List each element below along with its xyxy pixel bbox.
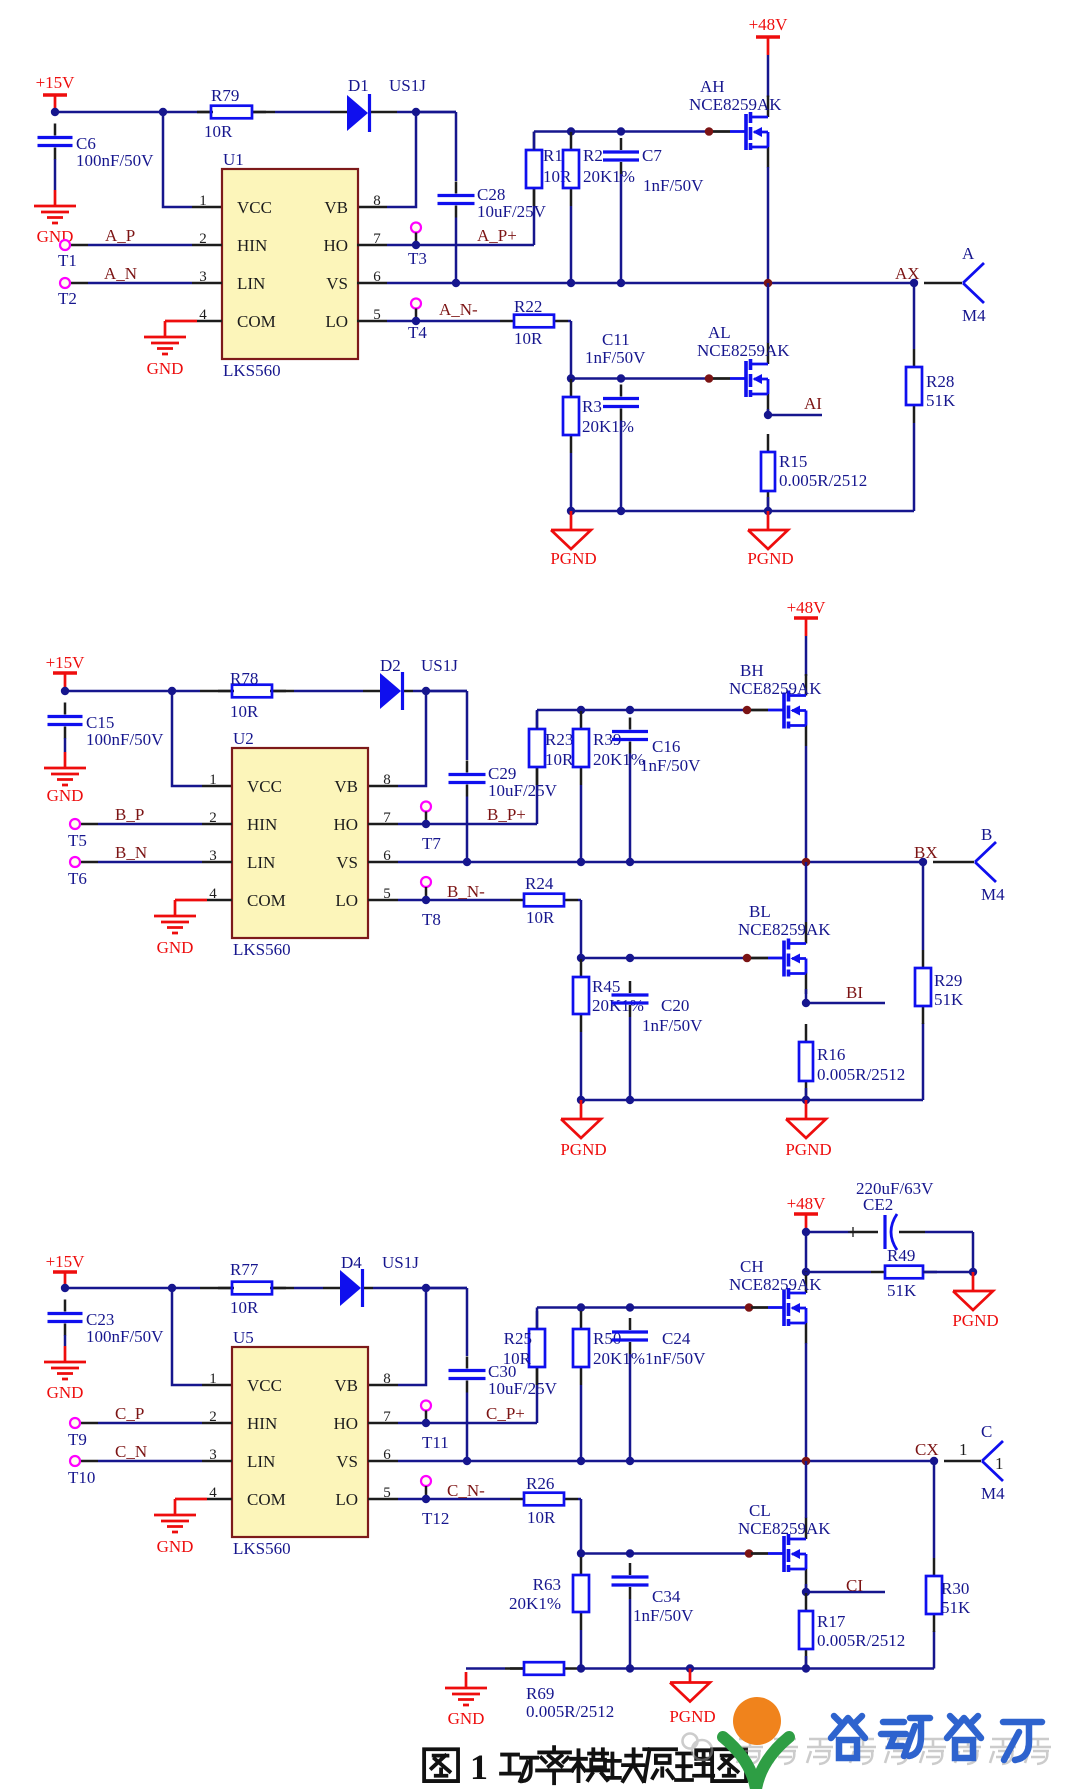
- wire VCC to U5 pin 1: [172, 1288, 232, 1385]
- svg-text:100nF/50V: 100nF/50V: [86, 730, 164, 749]
- test point T3: [408, 223, 427, 269]
- svg-text:R77: R77: [230, 1260, 259, 1279]
- resistor R22 10R: [500, 297, 568, 348]
- test point T5: [68, 819, 87, 850]
- wire C20 to PGND rail: [629, 1017, 632, 1100]
- resistor R1 10R (gate): [526, 132, 572, 206]
- transistor BH NCE8259AK: [729, 661, 822, 746]
- svg-text:T10: T10: [68, 1468, 95, 1487]
- wire BH source to BX rail: [805, 746, 808, 862]
- svg-text:10uF/25V: 10uF/25V: [477, 202, 547, 221]
- svg-text:R25: R25: [504, 1329, 532, 1348]
- wire C28 to VS rail: [455, 218, 458, 284]
- svg-text:B_P: B_P: [115, 805, 144, 824]
- wire C11 to PGND rail: [620, 421, 623, 512]
- svg-text:D1: D1: [348, 76, 369, 95]
- wire test point T11 stub: [425, 1411, 428, 1420]
- junction C16 on gate rail B-high: [626, 706, 634, 714]
- svg-text:20K1%: 20K1%: [582, 417, 634, 436]
- wire +15V rail (net VCC15, phase B): [65, 690, 467, 693]
- wire U1 HO pin 7 to gate node A_P+: [357, 188, 534, 245]
- junction R45 on gate rail B-low: [577, 954, 585, 962]
- junction VCC branch: [159, 108, 167, 116]
- capacitor C6 100nF/50V: [38, 124, 155, 171]
- wire R15 to PGND rail: [767, 497, 770, 511]
- svg-text:NCE8259AK: NCE8259AK: [697, 341, 790, 360]
- wire R63 to GND rail: [580, 1630, 583, 1669]
- capacitor C15 100nF/50V: [48, 703, 165, 750]
- svg-text:20K1%: 20K1%: [592, 996, 644, 1015]
- wire U2 LO pin 5 to R24: [368, 899, 510, 902]
- svg-text:+15V: +15V: [46, 1252, 86, 1271]
- wire B low-side gate rail: [581, 957, 747, 960]
- wire test point T7 stub: [425, 812, 428, 821]
- svg-text:LKS560: LKS560: [233, 1539, 291, 1558]
- connector M4 phase A: [962, 244, 986, 325]
- svg-text:U1: U1: [223, 150, 244, 169]
- resistor R2 20K1%: [563, 132, 635, 206]
- junction R50 on gate rail C-high: [577, 1303, 585, 1311]
- svg-text:8: 8: [383, 772, 391, 788]
- wire R17 to GND rail: [805, 1656, 808, 1669]
- wire CL drain to CX rail: [805, 1461, 808, 1518]
- svg-text:HIN: HIN: [247, 1414, 277, 1433]
- junction R45/PGND: [577, 1096, 585, 1104]
- power ground PGND (A shunt): [747, 511, 793, 568]
- svg-text:HIN: HIN: [237, 236, 267, 255]
- svg-text:LO: LO: [335, 1490, 358, 1509]
- junction R49/CE2/PGND: [969, 1268, 977, 1276]
- resistor R77: [218, 1260, 286, 1317]
- svg-text:VCC: VCC: [247, 1376, 282, 1395]
- wire VS output rail (net AX): [357, 282, 962, 285]
- wire C low-side gate rail: [581, 1552, 749, 1555]
- svg-text:CI: CI: [846, 1576, 863, 1595]
- wire net CI: [806, 1591, 885, 1594]
- svg-text:R26: R26: [526, 1474, 554, 1493]
- svg-text:CX: CX: [915, 1440, 939, 1459]
- svg-text:+15V: +15V: [36, 73, 76, 92]
- wire C high-side gate rail: [537, 1308, 749, 1330]
- junction BH gate (off-grid): [743, 706, 752, 715]
- svg-text:GND: GND: [157, 938, 194, 957]
- svg-text:M4: M4: [962, 306, 986, 325]
- svg-text:20K1%: 20K1%: [593, 1349, 645, 1368]
- junction CI node: [802, 1588, 810, 1596]
- svg-text:10R: 10R: [204, 122, 233, 141]
- svg-text:R24: R24: [525, 874, 554, 893]
- svg-text:PGND: PGND: [550, 549, 596, 568]
- svg-text:T12: T12: [422, 1509, 449, 1528]
- wire U5 HO pin 7 to gate node C_P+: [368, 1367, 537, 1423]
- wire R26 to CL gate rail: [578, 1499, 581, 1554]
- wire VB to C28: [416, 112, 456, 181]
- test point T8: [421, 877, 441, 929]
- svg-text:PGND: PGND: [952, 1311, 998, 1330]
- svg-text:10uF/25V: 10uF/25V: [488, 1379, 558, 1398]
- svg-text:GND: GND: [448, 1709, 485, 1728]
- caption: figure title 图 1 功率模块原理图: [424, 1747, 746, 1787]
- svg-text:C: C: [981, 1422, 992, 1441]
- power +15V (phase B): [46, 653, 86, 691]
- wire U5 COM pin 4 to ground: [175, 1498, 232, 1501]
- svg-text:T4: T4: [408, 323, 427, 342]
- wire AH source to VS rail: [767, 167, 770, 283]
- junction C11/PGND: [617, 507, 625, 515]
- wire +15V rail (net VCC15, phase C): [65, 1287, 467, 1290]
- ground GND (under C23): [44, 1346, 86, 1402]
- svg-text:+48V: +48V: [787, 1194, 827, 1213]
- power +15V (phase C): [46, 1252, 86, 1290]
- svg-text:A_N-: A_N-: [439, 300, 478, 319]
- svg-text:8: 8: [373, 193, 381, 209]
- capacitor C16 1nF/50V: [612, 718, 701, 776]
- wire R50 to VS rail: [580, 1385, 583, 1461]
- svg-text:PGND: PGND: [669, 1707, 715, 1726]
- svg-text:100nF/50V: 100nF/50V: [76, 151, 154, 170]
- svg-text:10R: 10R: [503, 1349, 532, 1368]
- resistor R26 10R: [510, 1474, 578, 1527]
- svg-text:C34: C34: [652, 1587, 681, 1606]
- svg-text:1: 1: [959, 1440, 968, 1459]
- svg-text:LO: LO: [325, 312, 348, 331]
- junction R49 left: [802, 1268, 810, 1276]
- svg-text:0.005R/2512: 0.005R/2512: [817, 1065, 905, 1084]
- wire C15 to GND: [64, 738, 67, 752]
- svg-text:10R: 10R: [514, 329, 543, 348]
- svg-text:COM: COM: [247, 891, 286, 910]
- svg-text:T5: T5: [68, 831, 87, 850]
- svg-text:LKS560: LKS560: [233, 940, 291, 959]
- resistor R79: [197, 86, 266, 141]
- resistor R15 0.005R shunt: [761, 434, 867, 509]
- svg-text:R69: R69: [526, 1684, 554, 1703]
- svg-text:10R: 10R: [230, 1298, 259, 1317]
- svg-text:BI: BI: [846, 983, 863, 1002]
- transistor BL NCE8259AK: [738, 902, 831, 994]
- wire U1 COM pin 4 to ground: [165, 320, 222, 323]
- resistor R39 20K1%: [573, 711, 645, 785]
- junction C29/BX: [463, 858, 471, 866]
- junction D1 cathode node VB: [412, 108, 420, 116]
- svg-text:GND: GND: [47, 786, 84, 805]
- junction CH source / CL drain: [802, 1457, 811, 1466]
- svg-text:US1J: US1J: [389, 76, 426, 95]
- junction C34 rail: [626, 1664, 634, 1672]
- junction T3 on HO net: [412, 241, 420, 249]
- svg-text:CE2: CE2: [863, 1195, 893, 1214]
- svg-text:T3: T3: [408, 249, 427, 268]
- junction AH source / AL drain: [764, 279, 773, 288]
- svg-text:R23: R23: [545, 730, 573, 749]
- wire VCC to U1 pin 1: [163, 112, 222, 207]
- wire A high-side gate rail: [534, 132, 709, 151]
- svg-text:R16: R16: [817, 1045, 845, 1064]
- resistor R78: [218, 669, 286, 721]
- junction CH gate (off-grid): [745, 1303, 754, 1312]
- wire R49 to PGND: [923, 1271, 973, 1274]
- junction C7/VS: [617, 279, 625, 287]
- wire net C_P to U5 pin 2 HIN: [80, 1422, 232, 1425]
- junction +15V/C15: [61, 687, 69, 695]
- resistor R25 10R (gate): [503, 1311, 545, 1385]
- svg-text:BH: BH: [740, 661, 764, 680]
- resistor R24 10R: [510, 874, 578, 927]
- svg-text:NCE8259AK: NCE8259AK: [729, 679, 822, 698]
- wire A low-side gate rail: [571, 377, 709, 380]
- svg-text:T8: T8: [422, 910, 441, 929]
- junction D4 cathode node VB C: [422, 1284, 430, 1292]
- wire B high-side gate rail: [537, 710, 747, 729]
- junction R3/PGND: [567, 507, 575, 515]
- svg-text:VS: VS: [336, 1452, 358, 1471]
- capacitor C29 10uF/25V: [449, 761, 558, 801]
- junction C11 on gate rail A-low: [617, 374, 625, 382]
- wire VS output rail (net BX): [368, 861, 974, 864]
- svg-text:A_P: A_P: [105, 226, 135, 245]
- svg-text:R17: R17: [817, 1612, 846, 1631]
- test point T4: [408, 299, 427, 343]
- wire R22 to AL gate rail: [568, 321, 571, 379]
- wire VS output rail (net CX): [368, 1460, 981, 1463]
- junction AI node: [764, 411, 772, 419]
- junction BX / R29: [919, 858, 927, 866]
- svg-text:US1J: US1J: [382, 1253, 419, 1272]
- svg-text:+48V: +48V: [787, 598, 827, 617]
- svg-text:U2: U2: [233, 729, 254, 748]
- svg-text:GND: GND: [47, 1383, 84, 1402]
- resistor R49 51K: [871, 1246, 937, 1300]
- power ground PGND (CE2): [952, 1272, 998, 1330]
- wire C34 to GND rail: [629, 1599, 632, 1669]
- svg-text:B_N: B_N: [115, 843, 147, 862]
- wire test point T8 stub: [425, 887, 428, 896]
- svg-text:100nF/50V: 100nF/50V: [86, 1327, 164, 1346]
- wire C30 to VS rail: [466, 1393, 469, 1462]
- svg-text:0.005R/2512: 0.005R/2512: [779, 471, 867, 490]
- wire C24 to VS rail: [629, 1354, 632, 1461]
- svg-text:1: 1: [470, 1747, 488, 1787]
- wire CE2 to PGND corner: [899, 1232, 973, 1272]
- svg-text:1: 1: [209, 772, 217, 788]
- resistor R69 0.005R/2512: [510, 1662, 614, 1721]
- svg-text:T11: T11: [422, 1433, 449, 1452]
- svg-text:LIN: LIN: [237, 274, 265, 293]
- svg-text:C_P+: C_P+: [486, 1404, 525, 1423]
- svg-text:GND: GND: [157, 1537, 194, 1556]
- resistor R16 0.005R shunt: [799, 1024, 905, 1099]
- test point T9: [68, 1418, 87, 1449]
- junction CL gate (off-grid): [745, 1549, 754, 1558]
- wire +48V to AH drain: [767, 55, 770, 97]
- wire U2 COM pin 4 to ground: [175, 899, 232, 902]
- wire R45 to PGND rail: [580, 1032, 583, 1100]
- junction T4 on LO net: [412, 317, 420, 325]
- svg-text:AI: AI: [804, 394, 822, 413]
- wire AL source to AI node: [767, 409, 770, 415]
- wire VCC to U2 pin 1: [172, 691, 232, 786]
- svg-text:NCE8259AK: NCE8259AK: [689, 95, 782, 114]
- svg-text:NCE8259AK: NCE8259AK: [738, 920, 831, 939]
- junction BI node: [802, 999, 810, 1007]
- test point T7: [421, 802, 441, 854]
- svg-text:LIN: LIN: [247, 1452, 275, 1471]
- wire U2 HO pin 7 to gate node B_P+: [368, 767, 537, 824]
- svg-text:20K1%: 20K1%: [509, 1594, 561, 1613]
- power ground PGND (phase C): [669, 1669, 715, 1727]
- svg-text:20K1%: 20K1%: [583, 167, 635, 186]
- junction T12 on LO net: [422, 1495, 430, 1503]
- junction C24/CX: [626, 1457, 634, 1465]
- svg-text:B_N-: B_N-: [447, 882, 485, 901]
- logo watermark group: [683, 1697, 1052, 1789]
- svg-text:US1J: US1J: [421, 656, 458, 675]
- test point T10: [68, 1456, 95, 1487]
- svg-text:LIN: LIN: [247, 853, 275, 872]
- test point T6: [68, 857, 87, 888]
- wire CX to R30: [933, 1461, 936, 1558]
- connector M4 phase B: [975, 825, 1005, 904]
- resistor R30 51K: [926, 1558, 971, 1632]
- capacitor C23 100nF/50V: [48, 1300, 165, 1347]
- capacitor C11 1nF/50V: [585, 330, 646, 421]
- svg-text:1: 1: [209, 1371, 217, 1387]
- wire +48V node to CE2: [806, 1227, 878, 1237]
- wire C29 to VS rail: [466, 797, 469, 863]
- wire test point T4 stub: [415, 309, 418, 318]
- junction R3 on gate rail A-low: [567, 374, 575, 382]
- ground GND (under C15): [44, 752, 86, 805]
- junction R39/BX: [577, 858, 585, 866]
- svg-text:A_P+: A_P+: [477, 226, 517, 245]
- wire test point T3 stub: [415, 233, 418, 242]
- svg-text:10R: 10R: [230, 702, 259, 721]
- svg-text:COM: COM: [247, 1490, 286, 1509]
- transistor AH NCE8259AK: [689, 77, 782, 168]
- power +48V (phase B): [787, 598, 827, 636]
- wire VB node to U1 pin 8: [357, 112, 416, 207]
- svg-text:VS: VS: [336, 853, 358, 872]
- junction VCC branch C: [168, 1284, 176, 1292]
- wire R16 to PGND rail: [805, 1088, 808, 1100]
- svg-text:1nF/50V: 1nF/50V: [645, 1349, 706, 1368]
- svg-text:1nF/50V: 1nF/50V: [642, 1016, 703, 1035]
- resistor R29 51K: [915, 950, 964, 1024]
- junction R16/PGND: [802, 1096, 810, 1104]
- transistor CH NCE8259AK: [729, 1257, 822, 1344]
- svg-text:1nF/50V: 1nF/50V: [585, 348, 646, 367]
- svg-text:C16: C16: [652, 737, 680, 756]
- junction T8 on LO net: [422, 896, 430, 904]
- wire U5 LO pin 5 to R26: [368, 1498, 510, 1501]
- svg-text:+48V: +48V: [749, 15, 789, 34]
- power +48V (phase C): [787, 1194, 827, 1232]
- svg-text:1: 1: [199, 193, 207, 209]
- junction AH gate (off-grid): [705, 127, 714, 136]
- junction PGND C rail: [686, 1664, 694, 1672]
- svg-text:R2: R2: [583, 146, 603, 165]
- wire BX to R29: [922, 862, 925, 950]
- diode D2 US1J: [380, 656, 458, 710]
- connector M4 phase C: [981, 1422, 1005, 1503]
- junction R15/PGND: [764, 507, 772, 515]
- junction C20 on gate rail B-low: [626, 954, 634, 962]
- svg-text:AL: AL: [708, 323, 731, 342]
- svg-text:T2: T2: [58, 289, 77, 308]
- svg-text:A_N: A_N: [104, 264, 137, 283]
- svg-text:COM: COM: [237, 312, 276, 331]
- junction +48V / CE2: [802, 1228, 810, 1236]
- junction BH source / BL drain: [802, 858, 811, 867]
- wire net A_N to U1 pin 3 LIN: [70, 282, 222, 285]
- wire net B_N to U2 pin 3 LIN: [80, 861, 232, 864]
- svg-text:M4: M4: [981, 1484, 1005, 1503]
- svg-text:VS: VS: [326, 274, 348, 293]
- svg-text:B_P+: B_P+: [487, 805, 526, 824]
- wire +15V rail (net VCC15, phase A): [55, 111, 456, 114]
- svg-text:C11: C11: [602, 330, 630, 349]
- svg-text:CL: CL: [749, 1501, 771, 1520]
- svg-text:R63: R63: [533, 1575, 561, 1594]
- svg-text:B: B: [981, 825, 992, 844]
- junction T7 on HO net: [422, 820, 430, 828]
- junction R2 on gate rail A-high: [567, 127, 575, 135]
- svg-text:VCC: VCC: [247, 777, 282, 796]
- resistor R17 0.005R shunt: [799, 1593, 905, 1667]
- ground GND (under C6): [34, 190, 76, 246]
- wire BL drain to BX rail: [805, 862, 808, 922]
- svg-text:HO: HO: [333, 1414, 358, 1433]
- svg-text:R22: R22: [514, 297, 542, 316]
- wire net AI: [768, 414, 822, 417]
- svg-text:CH: CH: [740, 1257, 764, 1276]
- junction D2 cathode node VB B: [422, 687, 430, 695]
- wire R39 to VS rail: [580, 785, 583, 862]
- svg-text:R15: R15: [779, 452, 807, 471]
- capacitor C34 1nF/50V: [612, 1563, 695, 1625]
- test point T12: [421, 1476, 449, 1528]
- svg-text:GND: GND: [147, 359, 184, 378]
- wire VB to C29: [426, 691, 467, 760]
- transistor CL NCE8259AK: [738, 1501, 831, 1590]
- junction R69/R63 rail: [577, 1664, 585, 1672]
- svg-text:R29: R29: [934, 971, 962, 990]
- op-amp driver U2 LKS560: [209, 729, 391, 959]
- wire C GND rail: [466, 1631, 934, 1669]
- svg-text:NCE8259AK: NCE8259AK: [729, 1275, 822, 1294]
- resistor R50 20K1%: [573, 1311, 645, 1385]
- svg-text:T9: T9: [68, 1430, 87, 1449]
- resistor R63 20K1%: [509, 1557, 589, 1630]
- svg-text:PGND: PGND: [785, 1140, 831, 1159]
- svg-text:C_N-: C_N-: [447, 1481, 485, 1500]
- svg-text:0.005R/2512: 0.005R/2512: [817, 1631, 905, 1650]
- ground GND (R69): [445, 1672, 487, 1728]
- capacitor C24 1nF/50V: [612, 1318, 706, 1368]
- wire A PGND rail: [571, 423, 914, 511]
- svg-text:10R: 10R: [545, 750, 574, 769]
- svg-text:A: A: [962, 244, 975, 263]
- op-amp driver U5 LKS560: [209, 1328, 391, 1558]
- junction AX / R28: [910, 279, 918, 287]
- junction +15V/C6: [51, 108, 59, 116]
- junction R50/CX: [577, 1457, 585, 1465]
- wire U1 LO pin 5 to R22: [357, 320, 500, 323]
- power +15V (phase A): [36, 73, 76, 113]
- svg-text:D4: D4: [341, 1253, 362, 1272]
- junction R17 rail: [802, 1664, 810, 1672]
- diode D1 US1J: [347, 76, 426, 132]
